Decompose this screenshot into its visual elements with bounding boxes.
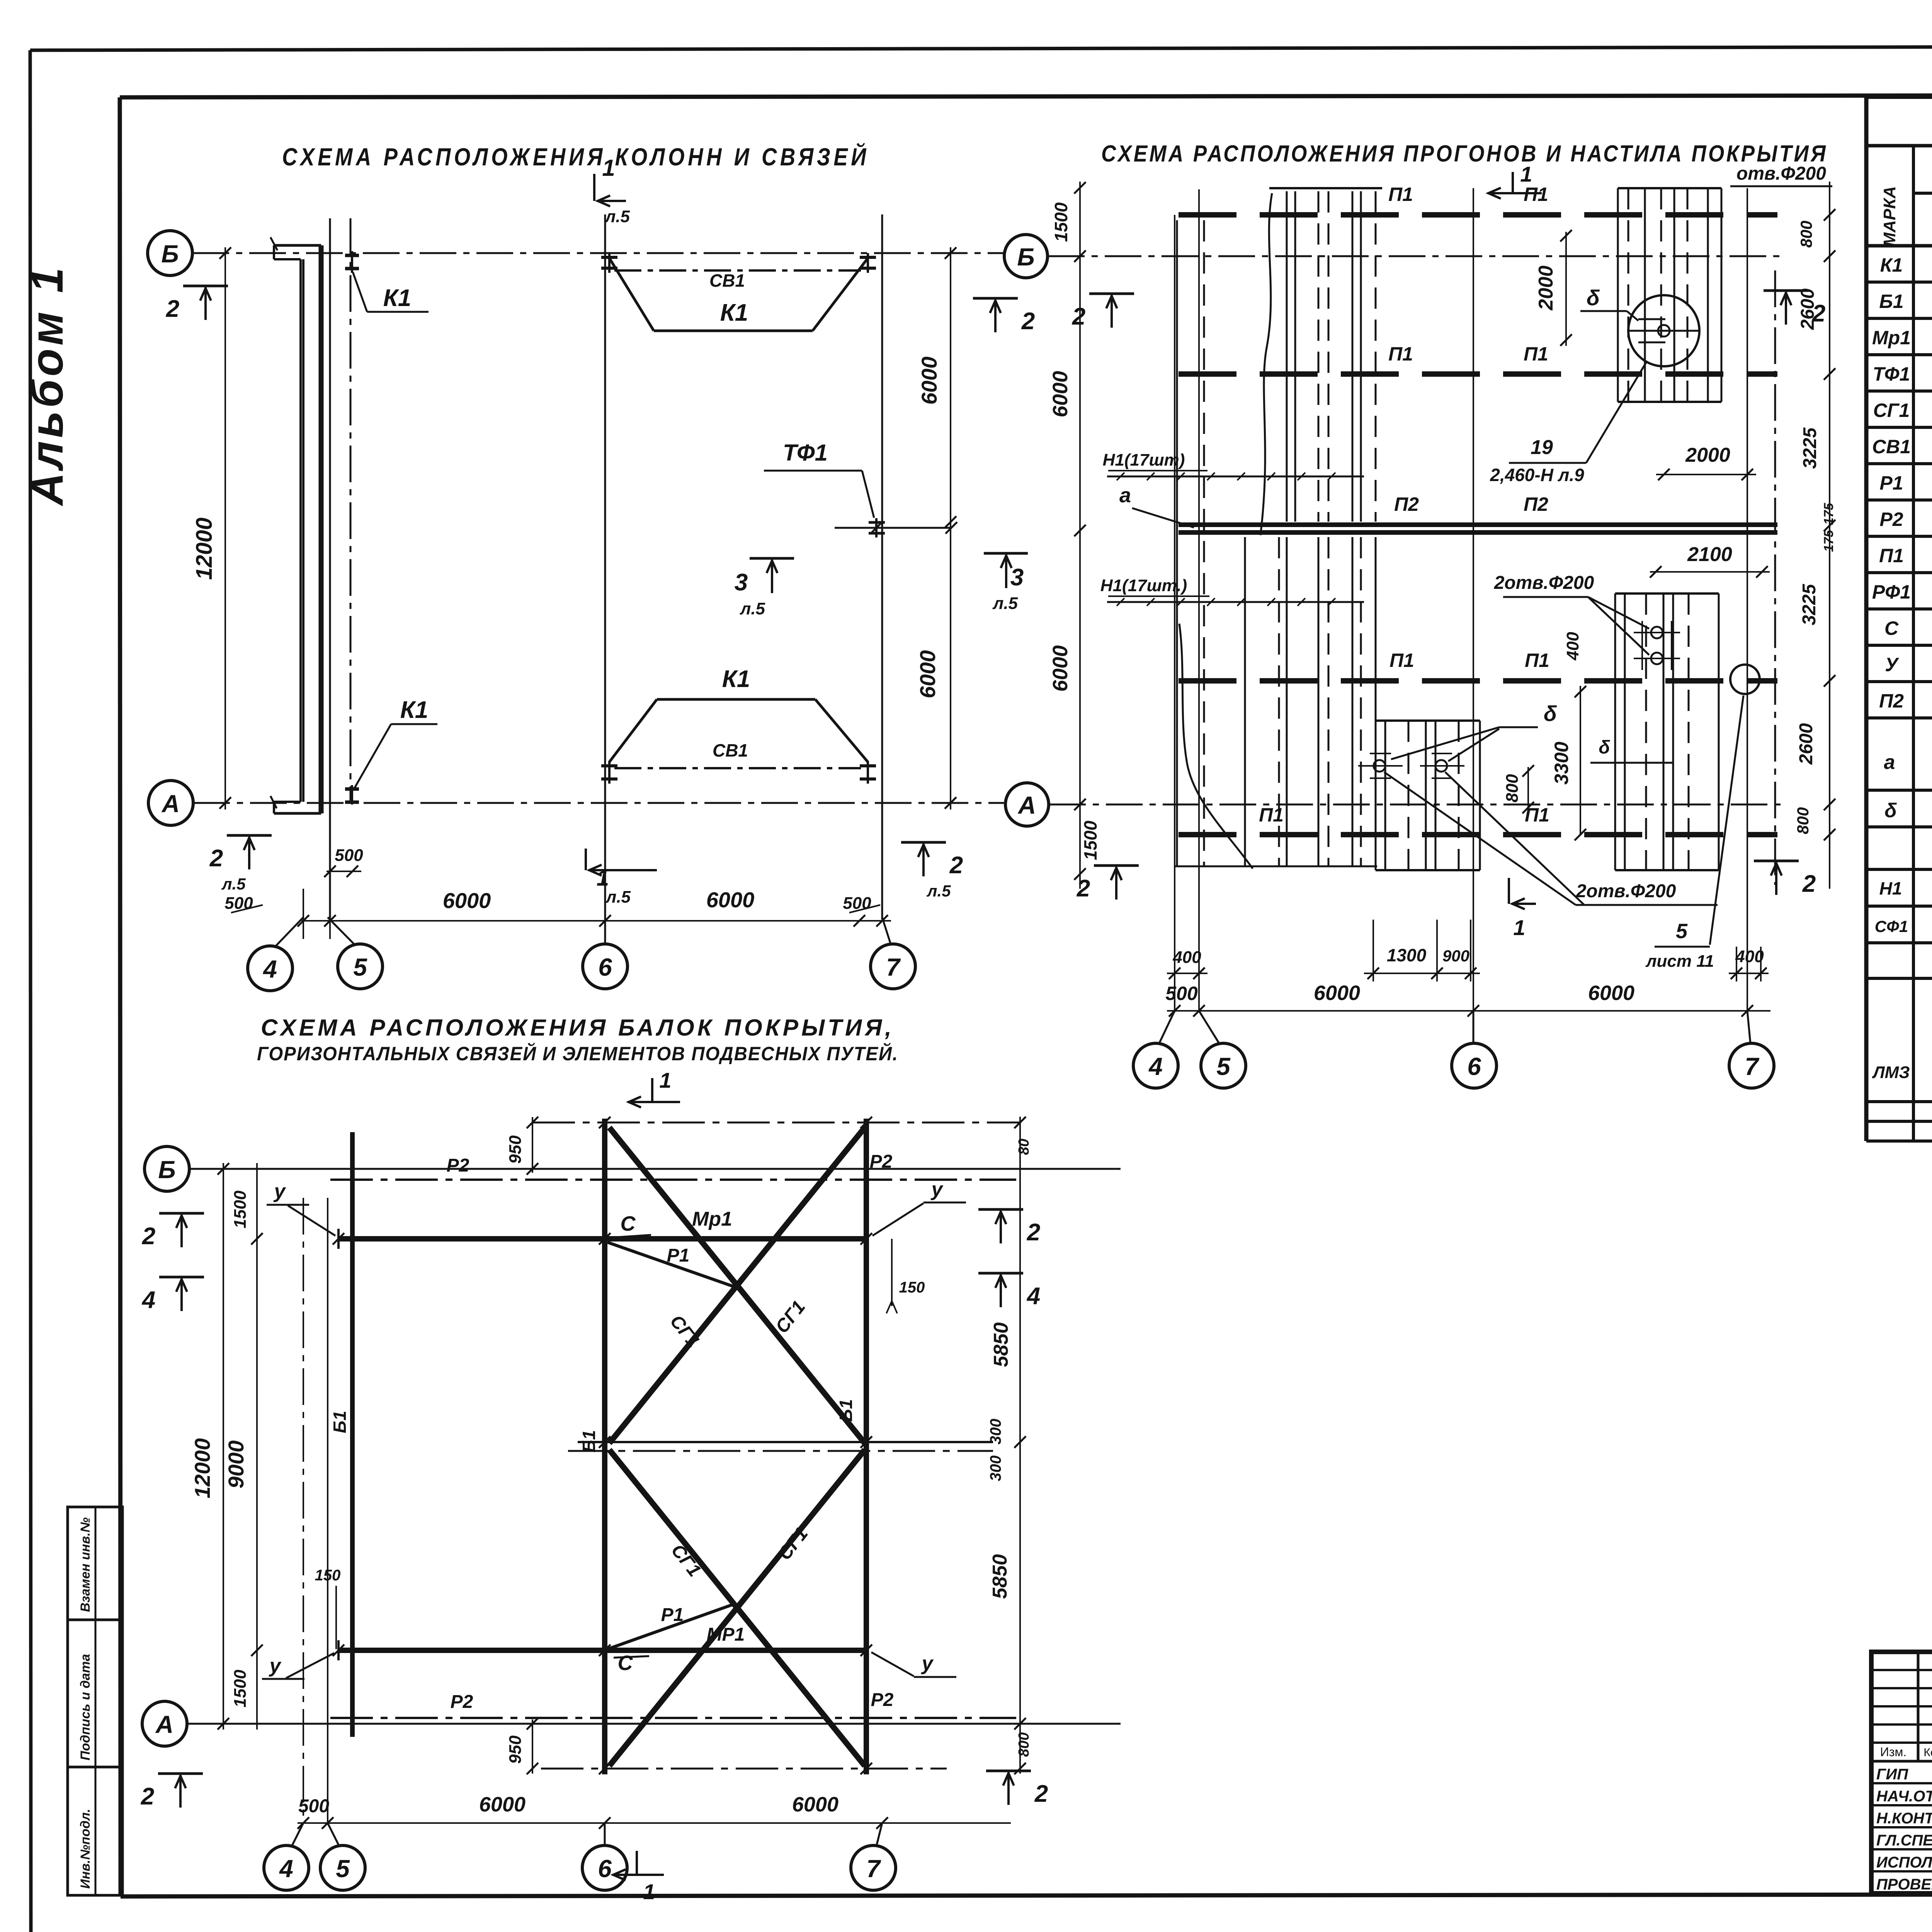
section mark 1 bottom of beam scheme	[612, 1851, 664, 1904]
label 5 лист 11 with leader	[1645, 696, 1743, 971]
title block frame	[1871, 1652, 1932, 1893]
svg-text:6000: 6000	[792, 1793, 838, 1816]
svg-text:СФ1: СФ1	[1875, 917, 1908, 935]
mid tie line of beam scheme	[568, 1419, 1004, 1481]
svg-text:1500: 1500	[231, 1670, 250, 1708]
label а with leader	[1119, 484, 1194, 527]
wall column strip	[270, 237, 322, 813]
grid line 4 middle scheme	[1174, 215, 1175, 1012]
left margin box Инв.№подл.	[68, 1767, 122, 1895]
section mark 2 bottom right of column scheme	[901, 842, 963, 900]
purlin П1 line 2	[1179, 343, 1777, 374]
svg-text:3225: 3225	[1799, 583, 1820, 625]
svg-text:500: 500	[335, 846, 363, 865]
svg-text:3: 3	[735, 569, 748, 596]
dimension 5850 right upper	[990, 1117, 1032, 1448]
deck panel cluster bottom right	[1590, 594, 1719, 870]
svg-text:800: 800	[1794, 807, 1812, 834]
svg-text:А: А	[155, 1711, 173, 1738]
grid line 6 middle scheme	[1473, 188, 1474, 1012]
dimension 2100	[1650, 543, 1770, 578]
label С upper	[616, 1212, 651, 1237]
svg-text:6000: 6000	[1049, 371, 1072, 417]
dimension 9000 beam scheme	[224, 1163, 263, 1730]
svg-text:800: 800	[1503, 774, 1522, 803]
svg-text:ТФ1: ТФ1	[783, 440, 828, 466]
axis circle А middle	[1005, 783, 1049, 826]
svg-text:ЛМЗ: ЛМЗ	[1872, 1063, 1910, 1082]
svg-text:80: 80	[1016, 1139, 1032, 1155]
svg-text:Н1(17шт): Н1(17шт)	[1103, 451, 1185, 469]
svg-text:3225: 3225	[1800, 427, 1820, 469]
svg-text:2: 2	[1034, 1781, 1048, 1807]
svg-text:2000: 2000	[1535, 265, 1557, 311]
axis bubble 7 purlin scheme	[1729, 1011, 1774, 1088]
deck panel cluster bottom middle	[1376, 721, 1480, 870]
svg-text:С: С	[621, 1212, 636, 1235]
svg-text:П2: П2	[1394, 493, 1419, 515]
grid line axis 4 dash vertical	[350, 218, 352, 804]
svg-text:1: 1	[659, 1068, 671, 1092]
deck fastener row Н1 17шт upper	[1103, 451, 1364, 480]
column K1 symbol at axis 7 bottom	[860, 761, 876, 784]
svg-text:δ: δ	[1884, 799, 1897, 822]
upper boundary dash line of braces	[532, 1117, 1020, 1128]
section mark 1 top of purlin scheme	[1488, 162, 1542, 199]
svg-text:2: 2	[1027, 1219, 1040, 1246]
svg-text:4: 4	[1148, 1053, 1163, 1080]
svg-text:П1: П1	[1388, 184, 1413, 205]
grid line 5 beam scheme	[327, 1198, 328, 1823]
section mark 3 л.5 right	[984, 553, 1028, 613]
table grid	[1866, 97, 1932, 1141]
dimension 2000 vertical at detail	[1535, 230, 1572, 346]
title block signature rows	[1876, 1766, 1932, 1893]
svg-text:Н.КОНТР.: Н.КОНТР.	[1876, 1810, 1932, 1827]
svg-text:У: У	[1885, 654, 1900, 675]
svg-text:у: у	[269, 1655, 282, 1677]
svg-text:К1: К1	[383, 285, 412, 311]
svg-text:2отв.Ф200: 2отв.Ф200	[1494, 573, 1594, 593]
svg-text:2: 2	[141, 1783, 154, 1810]
tie line at mid height with ТФ1 node	[835, 518, 957, 537]
dimension 2000 horizontal below detail	[1656, 444, 1756, 480]
svg-text:ИСПОЛН: ИСПОЛН	[1876, 1854, 1932, 1871]
left dimension chain of purlin scheme	[1049, 182, 1100, 889]
dimension 5850 right lower	[989, 1437, 1032, 1774]
table row РФ1	[1872, 580, 1932, 603]
section mark 4 left beam scheme	[141, 1277, 204, 1313]
section mark 2 left top purlin scheme	[1072, 294, 1134, 330]
svg-text:ПРОВЕР.: ПРОВЕР.	[1876, 1876, 1932, 1893]
svg-text:л.5: л.5	[926, 882, 951, 900]
section mark 4 right beam scheme	[978, 1273, 1040, 1310]
vertical brace K1 trapezoid bottom bay	[609, 666, 868, 762]
svg-text:л.5: л.5	[604, 207, 630, 226]
bottom dimension line of column scheme	[224, 846, 891, 939]
brace Р1 lower	[607, 1604, 733, 1649]
svg-text:2: 2	[209, 845, 223, 872]
svg-text:СХЕМА РАСПОЛОЖЕНИЯ ПРОГОНОВ И: СХЕМА РАСПОЛОЖЕНИЯ ПРОГОНОВ И НАСТИЛА ПО…	[1101, 141, 1828, 167]
vertical brace K1 trapezoid top bay	[609, 258, 868, 331]
cross brace СГ1 upper bay	[609, 1128, 865, 1443]
svg-text:П1: П1	[1389, 650, 1414, 671]
svg-text:2отв.Ф200: 2отв.Ф200	[1576, 881, 1676, 901]
section mark 2 top left	[166, 286, 228, 322]
svg-text:6: 6	[598, 953, 612, 981]
svg-text:МАРКА: МАРКА	[1880, 186, 1899, 247]
axis bubble 6 purlin scheme	[1452, 1011, 1497, 1088]
table row б angle	[1884, 797, 1932, 822]
section mark 2 bottom left beam scheme	[141, 1774, 203, 1810]
svg-text:К1: К1	[720, 299, 748, 326]
axis line Б middle scheme	[1048, 255, 1785, 257]
svg-text:л.5: л.5	[221, 875, 246, 893]
dimension 950 bottom	[506, 1718, 538, 1774]
svg-text:отв.Ф200: отв.Ф200	[1736, 163, 1826, 184]
svg-text:П2: П2	[1879, 690, 1904, 712]
svg-text:800: 800	[1797, 221, 1815, 248]
svg-text:6000: 6000	[443, 888, 491, 913]
column K1 symbol near axis 5 bottom	[345, 785, 359, 804]
label б top	[1580, 286, 1638, 321]
svg-text:12000: 12000	[190, 1438, 214, 1498]
svg-text:2600: 2600	[1796, 723, 1816, 765]
table row СФ1	[1875, 910, 1932, 935]
girder Б1 right vertical	[836, 1119, 866, 1774]
grid line 4 beam scheme	[303, 1198, 304, 1823]
section mark 1 top of beam scheme	[628, 1068, 680, 1107]
label у top left with leader	[267, 1180, 335, 1236]
section mark 1 л.5 bottom middle	[586, 849, 657, 906]
svg-text:П1: П1	[1879, 545, 1904, 566]
dimension 800 rotated lower	[1503, 765, 1534, 813]
grid line 7 middle scheme	[1747, 188, 1748, 1012]
svg-text:5850: 5850	[989, 1554, 1011, 1599]
label Мр1 upper	[692, 1208, 732, 1230]
label отв.Ф200	[1730, 163, 1832, 186]
girder Б1 left vertical	[330, 1132, 352, 1737]
dimension 12000 beam scheme	[190, 1163, 229, 1730]
axis line Б top-left	[192, 252, 1004, 254]
table row Р2	[1879, 507, 1932, 531]
table row Р1	[1879, 471, 1932, 494]
svg-text:175: 175	[1821, 530, 1836, 552]
svg-text:800: 800	[1016, 1732, 1032, 1757]
svg-text:Р2: Р2	[1879, 509, 1903, 530]
svg-text:А: А	[161, 790, 180, 818]
svg-text:2: 2	[949, 852, 963, 879]
purlin П1 line 3	[1179, 650, 1777, 681]
axis bubble 7 beam scheme	[851, 1823, 896, 1890]
svg-text:у: у	[930, 1178, 944, 1201]
svg-text:300: 300	[987, 1456, 1004, 1481]
svg-text:СГ1: СГ1	[1873, 400, 1910, 421]
deck panel cluster left below П2	[1174, 537, 1377, 869]
axis bubble 7 of column scheme	[871, 917, 915, 989]
bottom main dimension 500 6000 6000 of purlin scheme	[1165, 981, 1770, 1017]
svg-text:Б: Б	[161, 240, 179, 268]
svg-text:П1: П1	[1525, 650, 1549, 671]
axis circle Б middle	[1004, 235, 1048, 278]
svg-text:7: 7	[1745, 1053, 1760, 1080]
axis circle А beam scheme	[142, 1701, 187, 1746]
table row Мр1	[1872, 326, 1932, 349]
svg-text:6: 6	[1467, 1053, 1481, 1080]
svg-text:лист 11: лист 11	[1645, 952, 1714, 971]
label у bottom right with leader	[871, 1652, 956, 1677]
svg-text:12000: 12000	[192, 517, 217, 580]
svg-text:400: 400	[1563, 632, 1582, 661]
deck panel cluster top left	[1177, 188, 1382, 866]
svg-text:Колич: Колич	[1923, 1746, 1932, 1759]
svg-text:Б1: Б1	[1879, 291, 1903, 312]
svg-text:7: 7	[886, 953, 901, 981]
svg-text:Альбом 1: Альбом 1	[22, 264, 73, 507]
purlin П2 double line	[1179, 493, 1777, 532]
svg-text:1: 1	[602, 155, 615, 181]
table row СВ1	[1872, 435, 1932, 458]
svg-text:2000: 2000	[1685, 444, 1730, 466]
svg-text:6000: 6000	[917, 357, 941, 405]
label у top right with leader	[872, 1178, 966, 1236]
axis bubble 6 beam scheme	[582, 1823, 627, 1890]
svg-text:400: 400	[1172, 948, 1201, 967]
svg-text:а: а	[1119, 484, 1131, 507]
svg-text:9000: 9000	[224, 1440, 248, 1489]
section mark 2 right top purlin scheme	[1764, 291, 1825, 327]
girder Б1 middle vertical	[579, 1119, 605, 1774]
small node circle on П1 line 3	[1730, 665, 1760, 694]
svg-text:5: 5	[1676, 920, 1688, 943]
svg-text:Р2: Р2	[870, 1151, 893, 1172]
label у bottom left with leader	[262, 1653, 334, 1679]
svg-text:Б: Б	[1017, 243, 1034, 271]
section mark 2 bottom right beam scheme	[986, 1771, 1048, 1807]
section mark 2 right bottom purlin scheme	[1754, 861, 1816, 897]
left margin box Взамен инв.№	[68, 1507, 122, 1620]
svg-text:500: 500	[1165, 983, 1198, 1004]
svg-text:4: 4	[1026, 1283, 1040, 1310]
svg-text:РФ1: РФ1	[1872, 581, 1911, 603]
section trace 2-2 vertical dash line	[1774, 270, 1776, 885]
svg-text:3: 3	[1010, 564, 1024, 591]
svg-text:1500: 1500	[231, 1190, 250, 1228]
svg-text:7: 7	[866, 1855, 881, 1883]
svg-text:С: С	[1884, 617, 1899, 639]
section mark 2 left bottom purlin scheme	[1077, 866, 1139, 902]
svg-text:СХЕМА РАСПОЛОЖЕНИЯ КОЛОНН: СХЕМА РАСПОЛОЖЕНИЯ КОЛОНН И СВЯЗЕЙ	[282, 142, 869, 171]
svg-text:СВ1: СВ1	[713, 740, 748, 760]
svg-text:К1: К1	[1880, 254, 1903, 276]
svg-text:а: а	[1884, 751, 1895, 774]
label МР1 lower	[707, 1624, 745, 1645]
axis circle Б beam scheme	[145, 1146, 189, 1191]
svg-text:Р1: Р1	[661, 1605, 684, 1625]
column K1 symbol at axis 5	[345, 251, 359, 273]
lower boundary dash line of braces	[541, 1763, 947, 1774]
label 2отв.Ф200 upper with leaders	[1494, 573, 1649, 655]
post ТФ1 leader and label	[764, 440, 874, 518]
svg-text:МР1: МР1	[707, 1624, 745, 1645]
table row П1	[1879, 544, 1932, 567]
svg-text:К1: К1	[722, 666, 750, 692]
svg-text:ГОРИЗОНТАЛЬНЫХ СВЯЗЕЙ И ЭЛЕМЕ: ГОРИЗОНТАЛЬНЫХ СВЯЗЕЙ И ЭЛЕМЕНТОВ ПОДВЕС…	[257, 1043, 898, 1065]
svg-text:5: 5	[336, 1855, 350, 1883]
leader and label K1 bottom left	[354, 697, 437, 789]
svg-text:1: 1	[643, 1879, 655, 1904]
main beam bottom of beam scheme	[333, 1640, 872, 1660]
svg-text:5: 5	[1216, 1053, 1231, 1080]
svg-text:2: 2	[166, 296, 179, 322]
svg-text:400: 400	[1735, 947, 1764, 966]
axis bubble 6 of column scheme	[583, 917, 628, 989]
svg-text:6000: 6000	[479, 1793, 526, 1816]
grid line axis 6 vertical	[604, 214, 606, 920]
svg-text:у: у	[921, 1652, 934, 1675]
svg-text:Р1: Р1	[1879, 472, 1903, 494]
svg-text:л.5: л.5	[992, 594, 1018, 613]
dimension 6000 6000 right side of column scheme	[915, 247, 956, 810]
detail circle б with hole	[1628, 295, 1699, 366]
purlin П1 line 4	[1179, 804, 1777, 835]
section mark 1 л.5 top	[594, 155, 630, 226]
svg-text:1500: 1500	[1080, 820, 1100, 860]
axis line Б beam scheme	[189, 1168, 1121, 1170]
svg-text:Б: Б	[158, 1156, 175, 1184]
axis bubble 4 beam scheme	[264, 1823, 309, 1890]
svg-text:6000: 6000	[1314, 981, 1360, 1005]
dimension 150 right upper	[886, 1239, 925, 1313]
axis bubble 4 of column scheme	[248, 917, 303, 991]
label б lower with leaders	[1391, 701, 1610, 761]
svg-text:δ: δ	[1544, 701, 1557, 726]
title block revision grid	[1871, 1652, 1932, 1893]
svg-text:л.5: л.5	[740, 599, 765, 618]
table row Б1	[1879, 289, 1932, 313]
svg-text:2: 2	[1021, 308, 1035, 335]
svg-text:950: 950	[506, 1135, 525, 1164]
column K1 symbol at axis 6 top	[601, 253, 617, 273]
column K1 symbol at axis 6 bottom	[601, 761, 617, 784]
dimension 150 left lower	[315, 1567, 341, 1649]
svg-text:900: 900	[1442, 947, 1469, 965]
table row К1	[1880, 253, 1932, 276]
svg-text:л.5: л.5	[605, 888, 631, 906]
horizontal tie СВ1 bottom	[614, 740, 861, 768]
section mark 2 left of Б beam scheme	[142, 1213, 204, 1250]
holes 2отв in bottom right cluster	[1634, 621, 1680, 670]
axis line А middle scheme	[1049, 804, 1785, 806]
table row Н1	[1879, 877, 1932, 901]
svg-text:6000: 6000	[1588, 981, 1634, 1005]
svg-text:δ: δ	[1599, 737, 1610, 758]
svg-text:А: А	[1017, 791, 1036, 819]
svg-text:Р2: Р2	[451, 1692, 473, 1712]
axis bubble 5 beam scheme	[320, 1823, 365, 1890]
dimension 400 rotated	[1563, 632, 1582, 661]
svg-text:Подпись и дата: Подпись и дата	[78, 1654, 93, 1760]
svg-text:2: 2	[1077, 875, 1090, 902]
label С lower	[614, 1651, 649, 1675]
section mark 1 bottom of purlin scheme	[1509, 878, 1536, 940]
svg-text:П1: П1	[1388, 343, 1413, 365]
svg-text:175: 175	[1821, 503, 1836, 525]
svg-text:1500: 1500	[1051, 202, 1071, 242]
svg-text:6000: 6000	[915, 650, 940, 699]
svg-text:2: 2	[1072, 303, 1085, 330]
svg-text:у: у	[273, 1180, 287, 1202]
cross brace СГ1 lower bay	[609, 1450, 865, 1766]
svg-text:500: 500	[298, 1796, 329, 1816]
purlin П1 line 1	[1179, 184, 1777, 215]
axis bubble 5 purlin scheme	[1199, 1011, 1246, 1088]
axis circle А left	[148, 781, 193, 825]
svg-text:950: 950	[506, 1735, 525, 1764]
dimension 3300 rotated	[1551, 686, 1586, 840]
axis bubble 4 purlin scheme	[1133, 1011, 1178, 1088]
svg-text:ТФ1: ТФ1	[1873, 363, 1910, 385]
title scheme of roof beams line 2	[257, 1043, 898, 1065]
deck fastener row Н1 17шт lower	[1100, 576, 1364, 606]
svg-text:5850: 5850	[990, 1322, 1012, 1367]
dimension line 12000 vertical	[192, 247, 231, 810]
table column headers	[1880, 159, 1932, 247]
svg-text:2: 2	[1802, 871, 1816, 897]
svg-text:3300: 3300	[1551, 742, 1572, 784]
svg-text:4: 4	[279, 1855, 293, 1883]
grid line 5 middle scheme	[1198, 189, 1200, 1012]
horizontal tie СВ1 top	[614, 270, 861, 291]
table block ЛМЗ	[1872, 994, 1932, 1095]
svg-text:Мр1: Мр1	[692, 1208, 732, 1230]
svg-text:Р2: Р2	[871, 1690, 894, 1710]
svg-text:Б1: Б1	[330, 1411, 350, 1433]
svg-text:ГИП: ГИП	[1876, 1766, 1908, 1783]
svg-text:300: 300	[987, 1419, 1004, 1445]
bottom small dimensions 400 1300 900 of purlin scheme	[1167, 920, 1769, 981]
axis circle Б left	[148, 231, 192, 276]
svg-text:С: С	[618, 1651, 633, 1675]
album label Альбом 1	[22, 264, 73, 507]
svg-text:5: 5	[353, 953, 367, 981]
svg-text:500: 500	[224, 894, 253, 913]
svg-text:Р2: Р2	[447, 1155, 469, 1176]
svg-text:П2: П2	[1524, 493, 1548, 515]
title scheme of roof beams and horizontal braces line 1	[261, 1015, 895, 1041]
title scheme of purlins and deck	[1101, 141, 1828, 167]
svg-text:2: 2	[1812, 300, 1825, 327]
svg-text:1: 1	[1513, 915, 1525, 940]
table row ТФ1	[1873, 362, 1932, 385]
runway dash line bottom P2	[330, 1690, 1016, 1718]
column K1 symbol at axis 7 top	[860, 253, 876, 273]
title scheme of columns and braces	[282, 142, 869, 171]
svg-text:19: 19	[1531, 436, 1553, 459]
grid line axis 5 vertical	[329, 218, 331, 920]
svg-text:СВ1: СВ1	[709, 270, 745, 291]
table row П2	[1879, 689, 1932, 712]
svg-text:П1: П1	[1524, 343, 1548, 365]
svg-text:Н1(17шт.): Н1(17шт.)	[1100, 576, 1187, 595]
svg-text:Мр1: Мр1	[1872, 327, 1911, 349]
svg-text:1: 1	[1520, 162, 1532, 186]
leader 19 2460-Н л.9	[1490, 361, 1647, 485]
brace Р1 upper	[607, 1242, 734, 1287]
svg-text:СХЕМА РАСПОЛОЖЕНИЯ БАЛОК П: СХЕМА РАСПОЛОЖЕНИЯ БАЛОК ПОКРЫТИЯ,	[261, 1015, 895, 1041]
svg-text:1300: 1300	[1387, 945, 1427, 965]
axis line А beam scheme	[187, 1723, 1121, 1725]
